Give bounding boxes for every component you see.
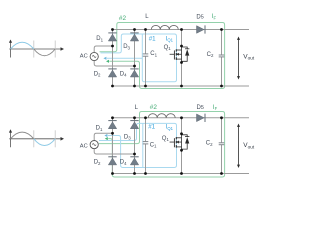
- svg-text:#1: #1: [148, 124, 155, 131]
- cyan loop #1 left edge (bottom circuit): [142, 123, 144, 167]
- junction: C1 top rail junction (top circuit): [144, 28, 147, 31]
- C1 branch wire: [145, 30, 147, 54]
- C2 branch wire: [221, 30, 223, 56]
- capacitor C1 (bottom circuit): [143, 141, 149, 143]
- svg-text:D1: D1: [96, 126, 103, 132]
- diode D3 (bottom circuit): [130, 120, 138, 122]
- svg-text:C2: C2: [207, 52, 214, 58]
- svg-text:IQ1: IQ1: [166, 37, 174, 43]
- diode D1 (top circuit): [108, 32, 116, 34]
- svg-text:D2: D2: [94, 160, 101, 166]
- transistor Q1 MOSFET (top circuit): [181, 46, 183, 63]
- AC source bottom lead: [94, 149, 134, 154]
- svg-text:AC: AC: [80, 143, 88, 149]
- junction: D1 cathode rail junction (top circuit): [111, 28, 114, 31]
- junction: C2 top rail junction (bottom circuit): [220, 116, 223, 119]
- diode D2 (top circuit): [108, 68, 116, 70]
- junction: AC bottom / D3-D4 junction (top circuit): [133, 65, 136, 68]
- green current loop #2 (top circuit, diode conduction path): [100, 23, 225, 89]
- svg-text:D1: D1: [96, 36, 103, 42]
- svg-text:D2: D2: [94, 72, 101, 78]
- green current loop #2 (bottom circuit, diode conduction path): [99, 112, 225, 178]
- sine-wave input half-cycle icon: [9, 138, 62, 140]
- cyan current loop #1 (top circuit, switch conduction path): [101, 34, 177, 82]
- junction: C1 bottom rail junction (bottom circuit): [144, 172, 147, 175]
- Vout arrow (top circuit): [238, 39, 240, 78]
- bottom rail wire: [113, 85, 250, 87]
- svg-text:D3: D3: [124, 134, 131, 140]
- svg-text:D4: D4: [120, 72, 127, 78]
- cyan loop #1 return spur (top circuit): [107, 57, 143, 59]
- junction: D2 anode rail junction (bottom circuit): [111, 172, 114, 175]
- svg-text:IF: IF: [212, 14, 217, 20]
- diode D2 (bottom circuit): [108, 156, 116, 158]
- bridge right column wire: [134, 118, 136, 174]
- diode D3 (top circuit): [130, 32, 138, 34]
- cyan loop #1 arrow (bottom circuit): [104, 134, 107, 137]
- junction: D2 anode rail junction (top circuit): [111, 85, 114, 88]
- diode D4 (top circuit): [130, 68, 138, 70]
- junction: Q1 source terminal (bottom circuit): [180, 149, 183, 152]
- capacitor C1 (top circuit): [143, 53, 149, 55]
- diode D5 (top circuit): [204, 25, 206, 33]
- AC source (top circuit): [90, 52, 98, 60]
- junction: C2 top rail junction (top circuit): [220, 28, 223, 31]
- junction: Q1 source terminal (top circuit): [180, 61, 183, 64]
- junction: Q1 source rail junction (top circuit): [180, 85, 183, 88]
- svg-text:C2: C2: [206, 141, 213, 147]
- junction: C1 top rail junction (bottom circuit): [144, 116, 147, 119]
- junction: D1 cathode rail junction (bottom circuit): [111, 116, 114, 119]
- capacitor C2 (top circuit): [219, 54, 225, 56]
- junction: Q1 drain rail junction (bottom circuit): [180, 116, 183, 119]
- svg-text:C1: C1: [150, 51, 157, 57]
- C1 branch wire: [145, 118, 147, 142]
- svg-text:#2: #2: [150, 104, 158, 111]
- junction: D4 anode rail junction (top circuit): [133, 85, 136, 88]
- svg-text:D5: D5: [197, 105, 204, 111]
- svg-text:IQ1: IQ1: [166, 125, 174, 131]
- junction: D3 cathode rail junction (top circuit): [133, 28, 136, 31]
- svg-text:D3: D3: [123, 44, 130, 50]
- sine-wave input half-cycle icon: [9, 48, 62, 50]
- Q1 branch wire: [181, 118, 183, 134]
- C2 branch wire: [221, 118, 223, 143]
- diode D1 (bottom circuit): [108, 120, 116, 122]
- junction: AC top / D1-D2 junction (bottom circuit): [111, 132, 114, 135]
- green loop #2 arrow (bottom circuit): [105, 137, 108, 140]
- cyan loop #1 arrow (top circuit): [103, 57, 106, 60]
- junction: AC bottom / D3-D4 junction (bottom circuit): [133, 153, 136, 156]
- inductor L (bottom circuit): [148, 114, 175, 118]
- green loop #2 arrow (top circuit): [106, 60, 109, 63]
- junction: C2 bottom rail junction (bottom circuit): [220, 172, 223, 175]
- junction: D4 anode rail junction (bottom circuit): [133, 172, 136, 175]
- junction: Q1 drain rail junction (top circuit): [180, 28, 183, 31]
- bridge left column wire: [112, 118, 114, 174]
- junction: C1 bottom rail junction (top circuit): [144, 85, 147, 88]
- svg-text:#2: #2: [119, 15, 127, 22]
- bridge left column wire: [112, 30, 114, 87]
- transistor Q1 MOSFET (bottom circuit): [181, 134, 183, 151]
- svg-text:D4: D4: [120, 160, 127, 166]
- bridge right column wire: [134, 30, 136, 87]
- AC source top lead: [94, 133, 112, 140]
- AC source bottom lead: [94, 61, 134, 66]
- AC source top lead: [94, 46, 112, 52]
- svg-text:Q1: Q1: [164, 45, 172, 51]
- Q1 branch wire: [181, 30, 183, 47]
- svg-text:D5: D5: [196, 14, 203, 20]
- diode D5 (bottom circuit): [204, 114, 206, 122]
- inductor L (top circuit): [151, 25, 178, 29]
- junction: Q1 drain terminal (top circuit): [180, 45, 183, 48]
- diode D4 (bottom circuit): [130, 156, 138, 158]
- junction: Q1 source rail junction (bottom circuit): [180, 172, 183, 175]
- bottom rail wire: [113, 173, 250, 175]
- junction: Q1 drain terminal (bottom circuit): [180, 132, 183, 135]
- AC source (bottom circuit): [90, 141, 98, 149]
- top rail wire: [113, 29, 250, 31]
- junction: C2 bottom rail junction (top circuit): [220, 85, 223, 88]
- junction: D3 cathode rail junction (bottom circuit): [133, 116, 136, 119]
- svg-text:AC: AC: [80, 54, 88, 60]
- top rail wire: [113, 117, 250, 119]
- svg-text:#1: #1: [149, 36, 156, 43]
- svg-text:C1: C1: [150, 142, 157, 148]
- svg-text:Q1: Q1: [162, 136, 170, 142]
- junction: AC top / D1-D2 junction (top circuit): [111, 45, 114, 48]
- svg-text:IF: IF: [213, 105, 218, 111]
- Vout arrow (bottom circuit): [238, 126, 240, 167]
- cyan current loop #1 (bottom circuit, switch conduction path): [99, 123, 177, 167]
- capacitor C2 (bottom circuit): [219, 142, 225, 144]
